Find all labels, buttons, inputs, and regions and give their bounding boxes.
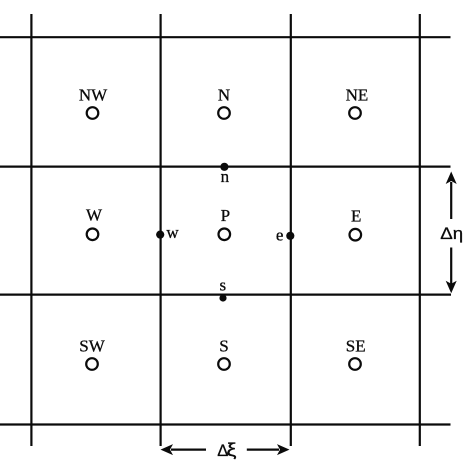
svg-text:SW: SW: [79, 337, 105, 356]
svg-text:NW: NW: [79, 85, 108, 104]
svg-text:P: P: [221, 206, 230, 225]
svg-text:Δη: Δη: [440, 224, 463, 243]
svg-text:W: W: [86, 206, 103, 225]
svg-text:NE: NE: [346, 85, 369, 104]
svg-text:S: S: [219, 337, 228, 356]
svg-text:w: w: [166, 223, 179, 242]
svg-text:n: n: [221, 167, 230, 186]
svg-text:SE: SE: [346, 337, 366, 356]
svg-text:N: N: [218, 85, 230, 104]
svg-text:e: e: [276, 225, 284, 244]
svg-text:ξ: ξ: [226, 440, 236, 461]
svg-text:E: E: [351, 207, 361, 226]
svg-text:s: s: [219, 275, 226, 294]
